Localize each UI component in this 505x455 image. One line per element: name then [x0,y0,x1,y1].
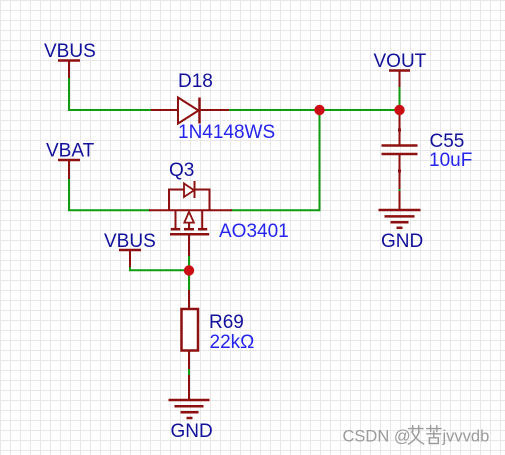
svg-text:10uF: 10uF [429,150,472,171]
svg-text:GND: GND [381,231,423,252]
svg-text:jvvvdb: jvvvdb [442,428,490,446]
svg-text:VOUT: VOUT [374,51,427,72]
svg-text:CSDN @: CSDN @ [343,428,411,446]
svg-text:1N4148WS: 1N4148WS [178,122,275,143]
svg-text:VBUS: VBUS [44,41,96,62]
svg-text:VBAT: VBAT [46,141,95,162]
svg-text:VBUS: VBUS [104,231,156,252]
svg-text:R69: R69 [209,312,244,333]
svg-text:Q3: Q3 [169,160,194,181]
svg-text:AO3401: AO3401 [219,221,289,242]
svg-text:C55: C55 [430,131,465,152]
svg-text:22kΩ: 22kΩ [210,332,255,353]
svg-text:GND: GND [171,421,213,442]
svg-text:D18: D18 [178,71,213,92]
